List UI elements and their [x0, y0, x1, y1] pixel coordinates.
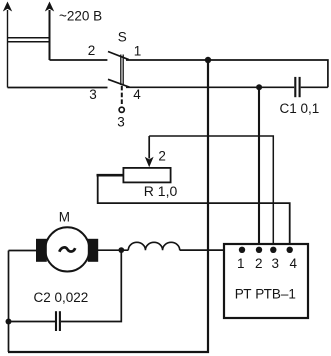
wire motor left drop: [8, 251, 10, 353]
svg-text:1: 1: [134, 43, 142, 58]
wire C2 right up to junction: [61, 250, 121, 321]
wire switch contact 4 to C1: [126, 86, 294, 88]
svg-text:РТ РТВ–1: РТ РТВ–1: [235, 287, 296, 302]
node motor right junction: [118, 247, 124, 253]
switch button 3 circle: [119, 107, 124, 112]
wire switch contact 1 to right edge: [126, 60, 328, 87]
svg-text:2: 2: [255, 256, 263, 271]
terminal 2 dot: [256, 247, 262, 253]
terminal 1 dot: [239, 247, 245, 253]
mains cord double line: [7, 38, 50, 42]
node phase junction: [205, 57, 211, 63]
capacitor C1: [295, 77, 328, 97]
svg-text:4: 4: [133, 87, 141, 102]
switch blade pole 2 (contacts 3-4): [108, 79, 130, 87]
svg-text:3: 3: [117, 114, 125, 129]
motor brush left: [36, 239, 47, 262]
wire C2 left: [9, 321, 56, 323]
wire motor right to inductor: [98, 249, 128, 251]
mains plug arrow right: [45, 2, 54, 61]
switch actuator dashed link: [121, 86, 123, 105]
switch blade pole 1 (contacts 2-1): [108, 52, 129, 60]
resistor R body: [123, 168, 170, 183]
rheostat wiper wire to terminal 3: [149, 136, 273, 250]
rheostat wiper arrow: [145, 136, 154, 167]
svg-text:R 1,0: R 1,0: [144, 183, 178, 199]
svg-text:3: 3: [89, 87, 97, 102]
svg-text:1: 1: [237, 256, 245, 271]
svg-text:~220 В: ~220 В: [59, 9, 102, 24]
svg-text:M: M: [59, 209, 70, 224]
svg-text:S: S: [118, 30, 127, 45]
relay box PT PTB-1: [224, 244, 308, 318]
wire neutral drop to terminal 2: [258, 87, 260, 250]
svg-text:2: 2: [88, 43, 96, 58]
svg-text:2: 2: [158, 149, 166, 164]
motor brush right: [88, 239, 98, 262]
terminal 3 dot: [270, 247, 276, 253]
wire phase to switch contact 2: [50, 59, 108, 61]
wire motor left: [9, 250, 37, 252]
wire inductor to terminal 1: [180, 249, 242, 251]
mains plug arrow left: [3, 2, 12, 88]
node neutral junction: [256, 84, 262, 90]
resistor left lead: [97, 174, 124, 177]
inductor L: [128, 242, 179, 250]
node C2 left junction: [6, 319, 12, 325]
svg-text:4: 4: [290, 256, 298, 271]
wire neutral to switch contact 3: [8, 87, 108, 89]
svg-text:3: 3: [272, 256, 280, 271]
wire phase drop to bottom rail: [8, 60, 208, 352]
svg-text:C2 0,022: C2 0,022: [34, 290, 89, 305]
motor AC tilde: [59, 247, 75, 251]
capacitor C2: [56, 311, 60, 331]
motor body: [45, 227, 89, 271]
switch linkage double bar: [121, 55, 123, 86]
wire resistor to terminal 4: [98, 175, 290, 250]
terminal 4 dot: [287, 247, 293, 253]
svg-text:C1 0,1: C1 0,1: [280, 101, 320, 116]
